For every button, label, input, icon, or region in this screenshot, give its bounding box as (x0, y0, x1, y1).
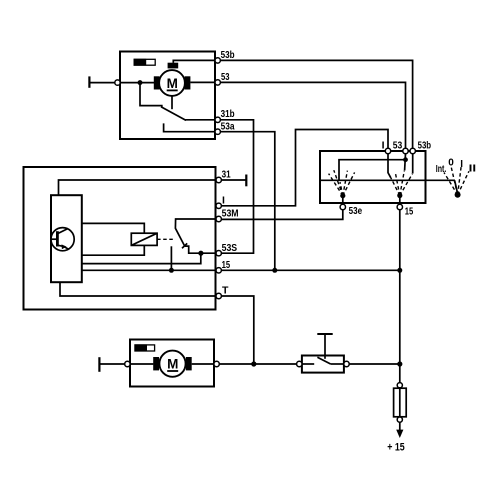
wire 15 inside relay (82, 269, 216, 271)
wire switch 15 down (399, 210, 401, 271)
junction washer/15 riser (397, 361, 402, 366)
dashed positions of right wiper (391, 171, 413, 196)
junction on 53 feed (403, 157, 408, 162)
transistor Q1 (51, 228, 74, 251)
svg-text:I: I (382, 140, 385, 152)
switch position indicator (444, 165, 469, 198)
park switch arm (161, 107, 186, 121)
thermal fuse icon in wiper motor box (134, 59, 156, 66)
svg-text:M: M (167, 76, 178, 91)
wire park switch to 31b terminal (185, 119, 215, 121)
right wiper pivot node (397, 193, 402, 198)
washer switch push actuator (317, 334, 332, 359)
svg-text:53b: 53b (418, 140, 432, 152)
wire pump to right terminal (192, 363, 214, 365)
contact stub 53b (412, 154, 414, 174)
washer switch right terminal (344, 361, 349, 366)
svg-text:53e: 53e (349, 205, 363, 217)
svg-text:31: 31 (222, 169, 231, 181)
park switch wire from junction (140, 83, 162, 108)
terminal 31b of wiper motor (215, 117, 220, 122)
wire 53a contact (164, 123, 215, 131)
svg-text:53S: 53S (222, 242, 238, 254)
wire 53a motor to 15 line (220, 132, 274, 271)
junction switch15/relay15 (397, 268, 402, 273)
terminal 53b of switch (410, 148, 415, 153)
ground stub from terminal 31 (221, 175, 246, 187)
junction 53S node (198, 251, 203, 256)
wire 31b motor to relay 53S (220, 120, 253, 253)
electronic module inner box (51, 195, 82, 282)
wire 53M relay to 53e switch (221, 210, 342, 220)
terminal T of relay (216, 293, 221, 298)
svg-text:53: 53 (221, 71, 230, 83)
terminal 15 of switch (397, 204, 402, 209)
terminal circle left of washer pump (125, 361, 130, 366)
svg-text:53: 53 (393, 140, 403, 152)
thermal fuse icon in washer pump box (134, 344, 154, 351)
terminal 53b of wiper motor (215, 58, 220, 63)
contact stub 53 (404, 154, 407, 171)
wire 53 motor to switch (220, 82, 405, 148)
svg-text:T: T (222, 285, 229, 297)
relay contact arm from 53M (175, 219, 216, 253)
svg-text:15: 15 (222, 259, 231, 271)
washer pump box (130, 340, 214, 387)
svg-text:M: M (167, 356, 178, 371)
terminal I of relay (216, 203, 221, 208)
wire T inside relay (60, 282, 216, 296)
ground bar left of washer pump (99, 357, 124, 372)
washer switch contact (302, 357, 344, 364)
motor M1 (wiper motor) (154, 63, 191, 96)
wire pump to washer switch (219, 363, 296, 365)
svg-text:Int.: Int. (436, 164, 447, 175)
washer switch left terminal (297, 361, 302, 366)
left wiper pivot node (340, 193, 345, 198)
terminal 53e of switch (340, 204, 345, 209)
fixed contact post (170, 246, 172, 270)
svg-text:+ 15: + 15 (387, 441, 405, 453)
svg-text:53M: 53M (222, 208, 239, 220)
junction T wire / pump wire (251, 361, 256, 366)
terminal 53a of wiper motor (215, 129, 220, 134)
terminal 31 of relay (216, 177, 221, 182)
wiper switch box (320, 151, 426, 203)
junction node in wiper motor box (138, 80, 143, 85)
svg-text:31b: 31b (221, 108, 235, 120)
dashed positions of left wiper (329, 170, 355, 196)
svg-text:53a: 53a (221, 120, 235, 132)
wire T to washer pump line (221, 296, 253, 364)
dashed actuation link from coil (157, 238, 173, 240)
terminal circle left of wiper motor box (115, 80, 120, 85)
pivot to 15 terminal (399, 196, 401, 205)
wire washer switch to 15 node (349, 363, 400, 365)
wire down to fuse (399, 364, 401, 383)
pivot to 53e terminal (342, 196, 344, 205)
svg-text:15: 15 (405, 206, 414, 218)
arrow to +15 supply (396, 422, 403, 438)
motor M2 (washer pump) (153, 351, 192, 377)
washer switch box (302, 356, 344, 373)
wire from left terminal to motor brush (120, 82, 154, 84)
svg-text:II: II (469, 164, 477, 175)
wire 31 inside relay (59, 180, 217, 195)
svg-text:I: I (222, 194, 225, 206)
mechanical coupling line (320, 179, 455, 181)
junction 15/contact post (169, 268, 174, 273)
svg-text:53b: 53b (221, 49, 235, 61)
junction 53a/15 (272, 268, 277, 273)
intermittent relay box (24, 167, 216, 310)
wire 15 down to washer line (399, 270, 401, 364)
fuse F1 (394, 383, 407, 423)
wire relay I to switch I (221, 130, 388, 206)
svg-text:I: I (460, 159, 463, 170)
terminal I of switch (385, 148, 390, 153)
terminal 53M of relay (216, 216, 221, 221)
wire 53b motor to switch (220, 60, 412, 148)
terminal 15 of relay (216, 268, 221, 273)
relay coil K1 (82, 223, 157, 255)
wiper motor unit box (120, 52, 215, 140)
terminal circle right of washer pump (214, 361, 219, 366)
wire into pump (130, 363, 153, 365)
wire 53S to module (82, 253, 201, 263)
wire motor right brush to 53 terminal (190, 81, 215, 83)
svg-text:0: 0 (448, 158, 454, 169)
wire 15 relay to switch 15 (221, 269, 399, 271)
switch inner feed wire from 53 (339, 160, 406, 181)
ground bar left of wiper motor (89, 76, 115, 87)
contact stub I (388, 154, 391, 178)
terminal 53 of wiper motor (215, 80, 220, 85)
terminal 53S of relay (216, 251, 221, 256)
wire motor armature to 53b terminal (173, 60, 215, 63)
terminal 53 of switch (403, 148, 408, 153)
park switch stub from motor bottom (171, 96, 173, 109)
